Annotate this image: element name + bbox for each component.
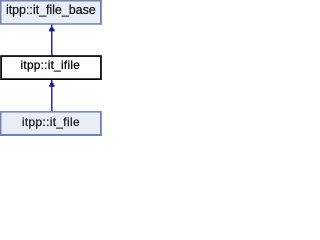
arrowhead up bbox=[49, 80, 55, 87]
arrowhead up bbox=[49, 25, 55, 32]
wire: top box right border reinforcement bbox=[100, 0, 102, 25]
node itpp::it_file (derived class box) bbox=[1, 112, 101, 135]
diagram: doxygen inheritance graph bbox=[0, 0, 102, 136]
svg-text:itpp::it_ifile: itpp::it_ifile bbox=[21, 58, 81, 72]
wire: arrow it_ifile -> it_file_base (midnightblue) bbox=[51, 31, 53, 56]
node itpp::it_ifile (current class box) bbox=[1, 56, 101, 79]
wire: bottom box bottom border reinforcement bbox=[0, 134, 102, 136]
background bbox=[0, 0, 102, 136]
svg-text:itpp::it_file: itpp::it_file bbox=[22, 115, 80, 129]
node itpp::it_file_base (base class box) bbox=[1, 1, 101, 24]
svg-text:itpp::it_file_base: itpp::it_file_base bbox=[6, 3, 96, 17]
wire: arrow it_file -> it_ifile (midnightblue) bbox=[51, 86, 53, 111]
wire: bottom box right border reinforcement bbox=[100, 111, 102, 136]
